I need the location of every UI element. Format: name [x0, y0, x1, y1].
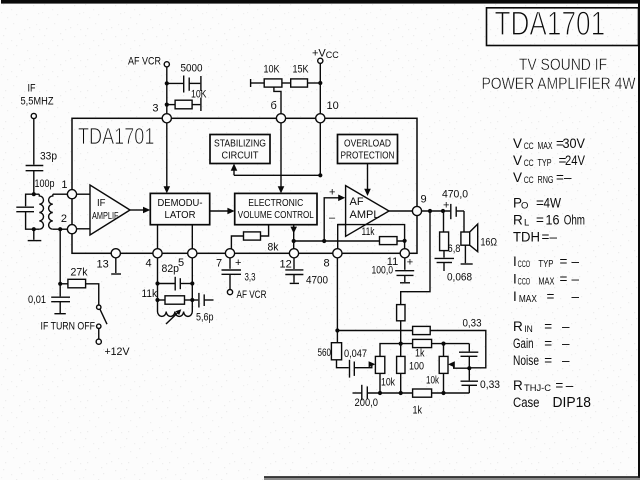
bottom border bar: [264, 476, 640, 478]
wire pin 10 to stabilizing circuit with arrow: [319, 123, 321, 175]
svg-text:6,8: 6,8: [448, 243, 461, 255]
svg-text:11k: 11k: [362, 226, 375, 238]
wire volume control to net12 with arrow: [293, 225, 295, 241]
node junction net12: [292, 239, 296, 243]
svg-text:11k: 11k: [142, 288, 158, 300]
wire pin2 to IF amp: [77, 228, 90, 230]
node junction pin8/0,33: [335, 328, 339, 332]
right border bar: [638, 0, 640, 478]
wire 3,3 to AF VCR terminal: [229, 274, 231, 290]
node +Vcc terminal: [318, 58, 323, 63]
wire output down to bottom network: [401, 211, 430, 305]
svg-text:TDH=–: TDH=–: [513, 230, 558, 245]
capacitor 200,0: [361, 385, 363, 401]
ground pin 13: [111, 273, 121, 275]
svg-text:+: +: [329, 187, 335, 199]
resistor 27k: [60, 283, 68, 285]
resistor 10K (bias): [250, 79, 252, 87]
node IF input terminal: [31, 113, 36, 118]
wire 100p to tank bottom: [26, 212, 34, 230]
svg-text:82p: 82p: [162, 263, 180, 275]
wire 15K to Vcc line: [308, 82, 321, 84]
svg-text:100p: 100p: [35, 178, 55, 190]
op-amp AF AMPL triangle: [346, 186, 389, 237]
wire secondary top to pin 1: [53, 193, 68, 195]
svg-text:TDA1701: TDA1701: [78, 124, 154, 150]
svg-text:100,0: 100,0: [372, 265, 394, 277]
potentiometer 10k (right): [439, 356, 448, 373]
wire feedback to pin 11: [338, 225, 405, 249]
node junction wiper net: [467, 366, 471, 370]
svg-text:560: 560: [318, 347, 332, 359]
resistor top of divider: [397, 305, 405, 321]
svg-text:10k: 10k: [426, 375, 439, 387]
svg-text:0,047: 0,047: [344, 348, 367, 360]
node junction pin2 wire: [58, 227, 62, 231]
svg-text:TDA1701: TDA1701: [495, 4, 606, 42]
resistor 0,33: [413, 326, 431, 334]
svg-text:10k: 10k: [381, 377, 395, 389]
wire plus input with arrow: [324, 198, 339, 241]
svg-text:5,6p: 5,6p: [196, 312, 214, 324]
node junction 5000 branch: [165, 81, 169, 85]
svg-text:4700: 4700: [306, 275, 328, 287]
wire 560 to 0,047: [337, 360, 349, 368]
svg-text:5000: 5000: [181, 63, 203, 75]
node junction tank bottom: [32, 227, 36, 231]
svg-text:9: 9: [421, 194, 427, 206]
node junction 27k/0,01: [58, 282, 62, 286]
wire resistor to 1k line: [400, 321, 402, 357]
svg-text:LATOR: LATOR: [165, 210, 196, 221]
svg-text:CaseDIP18: CaseDIP18: [513, 395, 591, 411]
wire pot1 top to 1k line: [380, 344, 469, 357]
svg-text:1k: 1k: [415, 348, 425, 360]
wire pin 5 down: [191, 258, 193, 312]
title box: [487, 8, 639, 46]
wire tank to ground: [33, 229, 35, 240]
pin 1 node: [67, 190, 76, 199]
IC label TDA1701: [78, 124, 154, 150]
wire net 0,33 top: [337, 331, 485, 368]
svg-text:–: –: [329, 212, 336, 224]
inductor T1 secondary winding: [49, 194, 53, 229]
subtitle POWER AMPLIFIER 4W: [482, 75, 636, 94]
potentiometer 10k (left): [375, 356, 384, 373]
node junction tank top: [32, 192, 36, 196]
title text TDA1701: [495, 4, 606, 42]
capacitor 5000: [167, 82, 183, 84]
svg-text:100: 100: [409, 361, 424, 373]
svg-text:0,33: 0,33: [480, 379, 500, 391]
svg-text:10K: 10K: [191, 89, 207, 101]
wire 33p to tank: [33, 171, 35, 195]
wire pot2 bottom: [443, 373, 445, 393]
svg-text:3: 3: [152, 103, 158, 115]
block OVERLOAD PROTECTION: [338, 135, 398, 164]
svg-text:10K: 10K: [264, 64, 281, 76]
wire overload protection to AF ampl with arrow: [367, 164, 369, 191]
pin 8 node: [333, 249, 342, 258]
svg-text:IF: IF: [97, 198, 106, 209]
wire +Vcc to pin 10: [319, 63, 321, 114]
svg-text:3,3: 3,3: [245, 272, 256, 284]
resistor 560: [331, 343, 341, 360]
svg-text:0,01: 0,01: [28, 294, 46, 306]
wire pin1 to IF amp: [77, 193, 90, 195]
wire IF amp to demodulator with arrow: [130, 209, 144, 211]
wire demodulator to pin 5: [191, 225, 193, 249]
wire bottom line: [353, 392, 362, 394]
wire primary top: [34, 193, 40, 195]
svg-text:OVERLOAD: OVERLOAD: [344, 139, 391, 150]
svg-text:0,068: 0,068: [447, 272, 472, 284]
capacitor 0,068: [443, 251, 445, 258]
resistor 15K: [291, 79, 308, 87]
resistor 1k (upper): [413, 339, 432, 347]
wire tap to pin 6: [274, 87, 281, 114]
capacitor 5,6p: [192, 299, 198, 301]
svg-text:0,33: 0,33: [463, 318, 482, 330]
svg-text:AMPLIF: AMPLIF: [92, 211, 119, 222]
op-amp IF AMPLIF triangle: [90, 185, 130, 235]
block ELECTRONIC VOLUME CONTROL: [235, 193, 317, 224]
wire pot2 wiper with arrow: [452, 364, 470, 368]
svg-text:33p: 33p: [40, 151, 57, 163]
pin 3 node: [162, 114, 171, 123]
svg-text:1k: 1k: [413, 405, 423, 417]
resistor 100: [397, 356, 405, 373]
svg-text:200,0: 200,0: [355, 397, 379, 409]
wire pin 4 down: [157, 258, 159, 312]
resistor 11k (discriminator): [158, 299, 166, 301]
capacitor 470,0: [450, 204, 452, 219]
top border bar: [1, 0, 640, 4]
svg-text:+: +: [443, 200, 449, 212]
IC U1 TDA1701 box: [72, 118, 417, 253]
svg-text:4: 4: [146, 258, 152, 270]
svg-text:27k: 27k: [71, 267, 88, 279]
capacitor 33p: [26, 165, 44, 167]
wire 100 to bottom line: [400, 373, 402, 393]
node junction plus input: [322, 239, 326, 243]
svg-text:8k: 8k: [268, 242, 279, 254]
capacitor 3,3: [229, 258, 231, 269]
block DEMODULATOR: [150, 193, 209, 224]
wire pin 13 to ground: [115, 258, 117, 273]
node junction 1k line left: [399, 342, 403, 346]
wire junction down to 27k: [59, 229, 61, 284]
svg-text:AF VCR: AF VCR: [237, 289, 267, 301]
wire pin 6 to volume control with arrow: [280, 123, 282, 188]
wire pin 8 down: [336, 258, 338, 343]
node junction bottom line pot2: [441, 391, 445, 395]
svg-text:15K: 15K: [293, 64, 310, 76]
subtitle TV SOUND IF: [519, 56, 607, 75]
svg-text:AMPL: AMPL: [350, 209, 380, 221]
node junction bottom line 100: [399, 391, 403, 395]
node junction 1k line mid: [441, 342, 445, 346]
wire minus input / feedback top: [338, 225, 346, 249]
node junction 10K branch: [165, 103, 169, 107]
pin 4 node: [153, 249, 162, 258]
svg-text:ELECTRONIC: ELECTRONIC: [248, 198, 303, 209]
wire AF ampl output to pin 9: [389, 210, 412, 212]
svg-text:VOLUME CONTROL: VOLUME CONTROL: [238, 210, 314, 221]
svg-text:+: +: [407, 257, 413, 269]
svg-text:DEMODU-: DEMODU-: [158, 198, 203, 209]
capacitor top (1k line to wiper node): [468, 344, 470, 352]
wire demodulator to pin 4: [157, 225, 159, 249]
node AF VCR terminal (bottom): [227, 290, 232, 295]
pin 5 node: [188, 249, 197, 258]
resistor 6,8: [443, 211, 445, 232]
wire 10K to 15K: [282, 82, 291, 84]
svg-text:10: 10: [327, 100, 339, 112]
svg-text:+VCC: +VCC: [312, 48, 339, 61]
pin 11 node: [400, 249, 409, 258]
wire IF input to 33p: [33, 118, 35, 164]
svg-text:TV SOUND IF: TV SOUND IF: [519, 56, 607, 75]
block STABILIZING CIRCUIT: [210, 135, 270, 164]
svg-text:12: 12: [280, 259, 292, 271]
pin 2 node: [67, 225, 76, 234]
svg-text:+: +: [235, 257, 241, 269]
node junction 11k right: [403, 239, 407, 243]
capacitor 4700: [293, 258, 295, 269]
svg-text:AF VCR: AF VCR: [128, 56, 161, 68]
inductor T1 primary winding: [39, 194, 43, 229]
svg-text:16Ω: 16Ω: [481, 237, 498, 249]
pin 9 node: [412, 206, 421, 215]
svg-text:б: б: [271, 100, 277, 112]
wire 27k to switch: [86, 284, 99, 305]
svg-text:7: 7: [216, 258, 222, 270]
capacitor 0,01: [59, 284, 61, 297]
inductor L1 variable: [158, 312, 193, 317]
speaker 16 ohm: [463, 211, 465, 232]
ground tank: [28, 240, 42, 242]
capacitor 82p: [158, 283, 175, 285]
pin 10 node: [316, 114, 325, 123]
node junction output/6,8: [441, 209, 445, 213]
svg-text:AF: AF: [350, 196, 364, 208]
wire pot2 top: [443, 344, 445, 357]
wire secondary bottom to pin 2: [53, 228, 68, 230]
resistor 11k feedback: [380, 237, 398, 245]
pin 7 node: [225, 249, 234, 258]
resistor 1k (bottom): [413, 389, 432, 397]
node junction 15K right: [318, 81, 322, 85]
svg-text:13: 13: [97, 259, 109, 271]
svg-text:IF TURN OFF: IF TURN OFF: [41, 321, 96, 333]
wire pin 9 to 470,0: [422, 210, 451, 212]
svg-text:IF: IF: [28, 83, 36, 95]
svg-text:CIRCUIT: CIRCUIT: [222, 151, 259, 162]
wire 0,047 to pot1 wiper with arrow: [354, 364, 372, 367]
svg-text:STABILIZING: STABILIZING: [214, 139, 266, 150]
capacitor 100,0: [404, 258, 406, 270]
capacitor 0,047: [349, 360, 351, 378]
svg-text:PROTECTION: PROTECTION: [341, 151, 395, 162]
wire primary bottom: [34, 228, 40, 230]
wire net12 to pin 12: [293, 241, 295, 249]
wire AF VCR to pin 3: [166, 67, 168, 114]
svg-text:8: 8: [324, 258, 330, 270]
svg-text:+12V: +12V: [105, 346, 131, 358]
pin 13 node: [111, 249, 120, 258]
pin 6 node: [276, 114, 285, 123]
switch IF TURN OFF: [97, 305, 101, 309]
node +12V terminal: [96, 339, 101, 344]
wire net12 horizontal: [294, 240, 405, 242]
node junction output/net33: [428, 209, 432, 213]
resistor 10K (AF VCR): [167, 104, 175, 106]
svg-text:POWER AMPLIFIER 4W: POWER AMPLIFIER 4W: [482, 75, 636, 94]
MAIN CIRCUIT: [16, 48, 500, 417]
svg-text:5,5MHZ: 5,5MHZ: [21, 96, 54, 108]
wire demodulator to volume control with arrow: [210, 210, 229, 212]
capacitor 100p: [16, 206, 34, 208]
svg-text:2: 2: [61, 213, 67, 225]
svg-text:PO=4W: PO=4W: [513, 196, 561, 212]
wire tank top to 100p: [26, 194, 34, 206]
node AF VCR terminal (top): [164, 62, 169, 67]
wire pot1 bottom: [379, 373, 381, 393]
wire switch to +12V: [98, 329, 100, 340]
node junction bottom line pot1: [378, 391, 382, 395]
pin 12 node: [289, 249, 298, 258]
resistor 8k: [231, 236, 243, 249]
wire pin 3 to demodulator with arrow: [166, 123, 168, 188]
capacitor 0,33 (bottom): [468, 368, 470, 380]
svg-text:1: 1: [61, 179, 67, 191]
